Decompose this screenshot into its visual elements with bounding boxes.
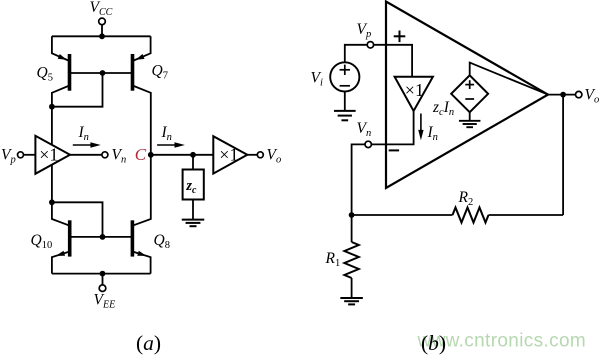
svg-text:C: C [135,145,147,164]
svg-text:(a): (a) [136,331,161,355]
svg-text:×1: ×1 [405,80,424,100]
svg-text:×1: ×1 [39,144,58,164]
svg-text:×1: ×1 [219,144,238,164]
svg-text:(b): (b) [421,331,446,355]
